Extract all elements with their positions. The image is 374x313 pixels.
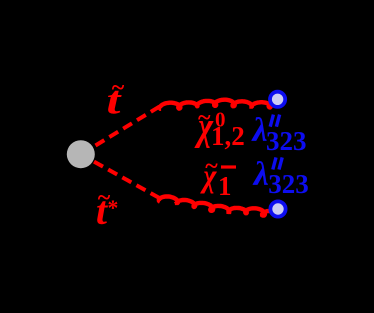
svg-text:~: ~ [205, 154, 218, 180]
svg-text:323: 323 [268, 169, 309, 199]
svg-text:1,2: 1,2 [211, 121, 245, 151]
svg-text:~: ~ [198, 105, 211, 131]
svg-text:323: 323 [266, 126, 307, 156]
svg-text:λ: λ [252, 156, 269, 193]
svg-text:1: 1 [218, 171, 232, 201]
svg-text:~: ~ [112, 75, 125, 101]
svg-text:*: * [108, 196, 119, 220]
